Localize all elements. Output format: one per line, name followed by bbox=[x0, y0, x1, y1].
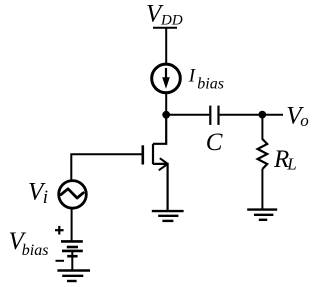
wire capacitor to output node bbox=[220, 114, 283, 116]
wire battery to ground bbox=[71, 251, 73, 270]
wire resistor to ground bbox=[261, 169, 263, 210]
ground at Vbias bbox=[57, 271, 90, 282]
power supply VDD terminal bar bbox=[153, 27, 177, 29]
wire current source to drain junction bbox=[165, 92, 167, 115]
svg-text:DD: DD bbox=[160, 13, 183, 29]
plus sign bbox=[55, 226, 64, 235]
node drain junction bbox=[162, 111, 170, 119]
transistor Q1 drain lead bbox=[153, 115, 166, 144]
net Vo label bbox=[286, 103, 309, 131]
svg-text:bias: bias bbox=[197, 76, 224, 93]
svg-text:o: o bbox=[300, 111, 309, 130]
minus sign bbox=[56, 260, 65, 262]
battery Vbias bbox=[61, 241, 83, 256]
capacitor C bbox=[210, 106, 218, 125]
source Vi bbox=[59, 181, 87, 209]
net VDD label bbox=[146, 0, 183, 28]
transistor Q1 channel bbox=[152, 144, 154, 164]
wire junction to capacitor bbox=[166, 114, 209, 116]
wire VDD bar to current source bbox=[165, 28, 167, 65]
svg-text:L: L bbox=[286, 154, 296, 173]
wire Vi to battery bbox=[71, 208, 73, 242]
label RL bbox=[273, 146, 297, 173]
label Vbias bbox=[9, 228, 49, 259]
current source Ibias bbox=[152, 64, 181, 93]
label C bbox=[206, 129, 223, 156]
wire gate to Vi corner bbox=[71, 154, 141, 181]
transistor Q1 gate bar bbox=[142, 145, 145, 164]
svg-text:C: C bbox=[206, 129, 223, 156]
svg-text:i: i bbox=[43, 187, 48, 208]
transistor Q1 source lead with arrow bbox=[153, 158, 168, 210]
node Vo bbox=[258, 111, 266, 119]
ground at RL bbox=[247, 210, 277, 220]
label Vi bbox=[28, 179, 48, 208]
label Ibias bbox=[188, 65, 224, 92]
ground at Q1 source bbox=[152, 211, 184, 221]
resistor RL bbox=[258, 139, 268, 169]
wire node to resistor bbox=[261, 115, 263, 140]
svg-text:bias: bias bbox=[22, 242, 49, 259]
